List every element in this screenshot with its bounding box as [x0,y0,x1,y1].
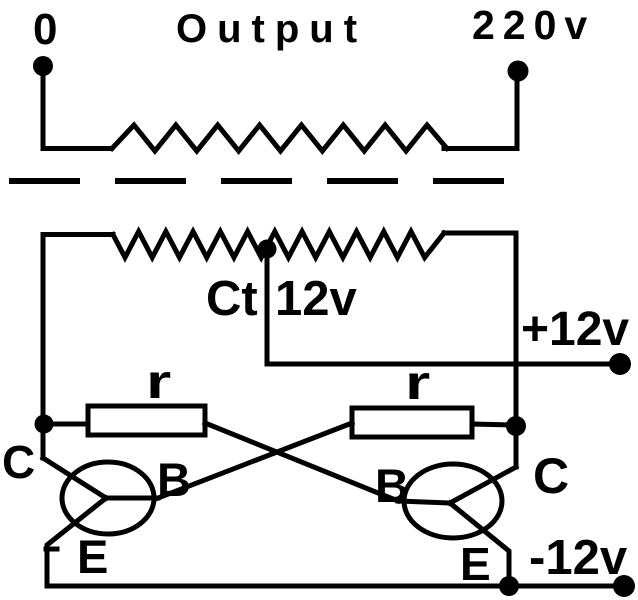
wire: Q1 base lead [106,496,158,501]
svg-text:Ct: Ct [206,272,258,326]
wire: 0 terminal to secondary left end [43,68,111,149]
wire: emitter bottom rail to -12v [47,584,622,589]
node: center tap Ct [258,240,277,259]
transformer core (dashed) [12,178,506,184]
wire: primary left lead (to Q1 collector) [43,235,113,459]
svg-text:C: C [533,448,569,504]
svg-text:-12v: -12v [529,531,628,585]
wire: r2 to Q1 base (cross-coupling) [158,423,352,498]
svg-text:220v: 220v [472,2,595,48]
svg-text:B: B [375,459,409,512]
transformer secondary winding L2 [112,125,447,151]
wire: Q2 base lead [398,501,450,503]
transistor Q1 (left) body [62,462,154,534]
wire: left node to r1 [44,422,88,427]
resistor r2 (right) body [352,408,472,437]
svg-text:C: C [2,436,35,488]
terminal dot +12v [609,353,631,375]
svg-text:0: 0 [33,5,57,54]
wire: Q2 emitter lead [450,503,509,586]
wire: r2 to right rail [472,424,516,425]
svg-text:+12v: +12v [521,303,629,356]
wire: Q1 collector lead [43,458,106,498]
terminal dot 0 [33,56,53,76]
terminal dot 220v [508,61,529,82]
svg-text:E: E [77,530,108,583]
svg-text:Output: Output [176,7,367,51]
wire: r1 to Q2 base (cross-coupling) [205,423,398,501]
wire: center tap down and right to +12v terminal [267,247,619,364]
node: junction left rail / r1 [35,415,54,434]
transformer primary winding L1 [113,232,444,258]
node: junction right rail / r2 [506,416,526,436]
svg-text:r: r [405,356,430,410]
terminal dot -12v [613,575,635,597]
svg-text:B: B [157,453,191,506]
wire: Q1 emitter lead [46,498,106,586]
transistor Q2 (right) body [404,464,502,538]
node: Q2 emitter on rail [499,576,519,596]
wire: primary right lead (to Q2 collector) [444,233,516,467]
svg-text:12v: 12v [275,272,358,326]
wire: Q2 collector lead [450,467,516,503]
wire: secondary right end to 220v terminal [444,72,517,149]
svg-text:E: E [460,538,491,590]
resistor r1 (left) body [88,406,205,435]
svg-text:r: r [146,355,171,409]
